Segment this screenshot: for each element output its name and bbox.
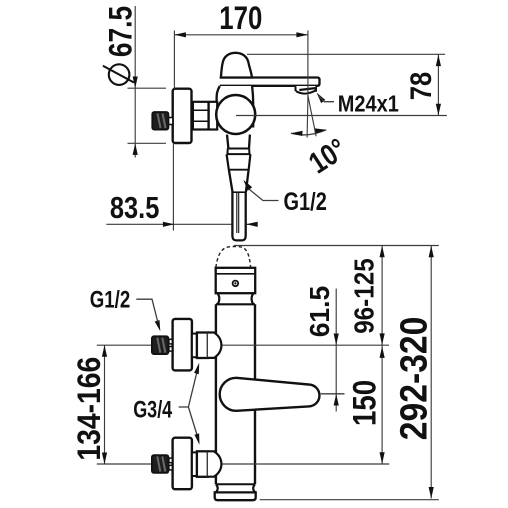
body bottom waist ring bbox=[216, 484, 256, 492]
10 degree angle: leg B (tilted) bbox=[308, 96, 316, 137]
center line of cartridge / bottom ref of 78 bbox=[236, 115, 447, 117]
dimension 134-166 bbox=[102, 345, 107, 464]
label M24x1 with leader bbox=[317, 93, 334, 104]
label G1/2 (top view) with leader bbox=[243, 180, 278, 201]
10 degree angle: arc with arrows bbox=[291, 128, 326, 136]
label G3/4 with two leaders bbox=[179, 363, 200, 445]
dimension 67.5: dim line with outside arrows bbox=[128, 6, 167, 158]
extension line left (wall face) bbox=[173, 31, 175, 89]
svg-text:78: 78 bbox=[405, 72, 438, 100]
dimension 78 bbox=[436, 54, 441, 115]
lever handle pill (front view) bbox=[220, 378, 320, 411]
wall connector knob G1/2 (top view, hatched) bbox=[152, 112, 168, 130]
svg-text:134-166: 134-166 bbox=[71, 357, 107, 461]
svg-text:67.5: 67.5 bbox=[102, 6, 138, 57]
dimension 170 bbox=[174, 32, 308, 37]
svg-text:G1/2: G1/2 bbox=[90, 287, 130, 314]
dimension 67.5: diameter symbol bbox=[103, 64, 134, 85]
dimension 83.5 arrows bbox=[163, 222, 258, 227]
10deg leg A (vertical reference) bbox=[306, 99, 309, 138]
reference line bottom bbox=[260, 499, 439, 501]
wall union nut blocks (top view) bbox=[192, 102, 218, 130]
dimension 61.5 (outside arrows) bbox=[334, 289, 339, 412]
reference line top of faucet (78) bbox=[247, 53, 445, 55]
reference line top (outlet plane) bbox=[234, 245, 439, 247]
axis line upper connection bbox=[97, 344, 152, 346]
svg-text:292-320: 292-320 bbox=[394, 317, 436, 441]
tick at lever tip bbox=[321, 393, 345, 395]
wall flange disc (top view) bbox=[173, 89, 192, 143]
svg-text:96-125: 96-125 bbox=[349, 258, 380, 334]
upper wall connection G3/4 (front view) bbox=[152, 319, 222, 371]
svg-text:61.5: 61.5 bbox=[304, 286, 335, 338]
svg-text:150: 150 bbox=[347, 380, 383, 426]
extension line right (aerator axis) bbox=[307, 31, 309, 100]
lower wall connection G3/4 (front view) bbox=[152, 438, 222, 490]
body bottom flange ring bbox=[215, 492, 256, 500]
spout bbox=[220, 78, 320, 86]
dimension 96-125 and 150 shared line bbox=[380, 246, 385, 464]
label G1/2 (front view) with leader bbox=[136, 299, 160, 331]
svg-text:G1/2: G1/2 bbox=[284, 188, 327, 216]
neck under cap bbox=[216, 293, 255, 304]
cartridge circle (top view) bbox=[216, 95, 255, 134]
dimension 83.5 line (under outlet tube) bbox=[106, 223, 257, 225]
union stem (top view) bbox=[168, 118, 173, 125]
shower outlet shaft (below body) bbox=[226, 135, 250, 241]
svg-text:G3/4: G3/4 bbox=[133, 397, 172, 424]
dashed lever dome (hidden handle position) bbox=[216, 247, 251, 268]
body sides bbox=[215, 304, 217, 484]
axis line lower connection bbox=[97, 463, 152, 465]
mixer body (top view) bbox=[217, 86, 254, 130]
svg-text:M24x1: M24x1 bbox=[338, 91, 399, 117]
top cap bbox=[216, 268, 256, 293]
aerator (M24x1 outlet) bbox=[296, 86, 317, 94]
lever cap dome (top) bbox=[221, 53, 252, 78]
svg-text:170: 170 bbox=[219, 0, 262, 36]
body front view bbox=[216, 247, 256, 485]
dimension 292-320 bbox=[429, 246, 434, 499]
svg-text:83.5: 83.5 bbox=[110, 190, 159, 225]
cap screw bbox=[233, 281, 239, 287]
